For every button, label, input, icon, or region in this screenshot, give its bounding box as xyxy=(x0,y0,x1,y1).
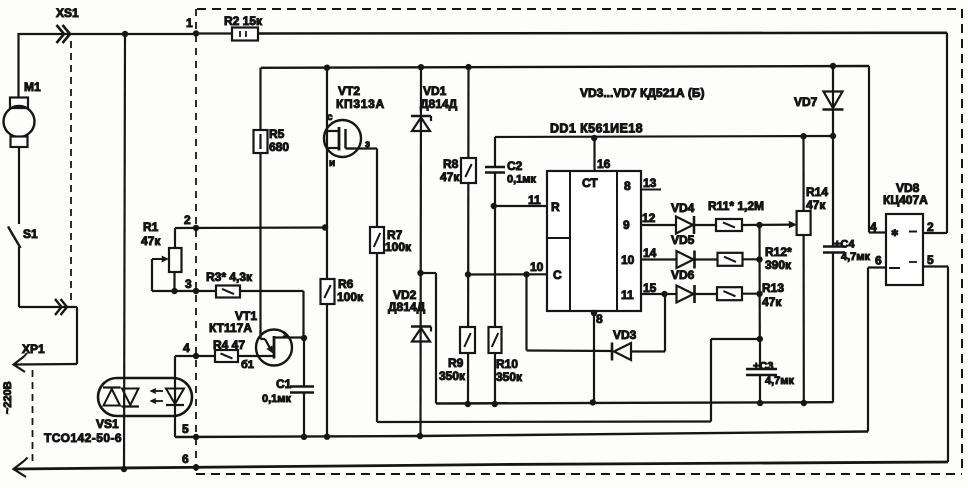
svg-text:Д814Д: Д814Д xyxy=(388,300,426,314)
svg-text:Д814Д: Д814Д xyxy=(420,97,458,111)
svg-text:13: 13 xyxy=(643,176,657,190)
svg-text:6: 6 xyxy=(182,452,189,466)
svg-text:и: и xyxy=(329,158,335,169)
svg-text:VT2: VT2 xyxy=(338,84,360,98)
svg-text:DD1 К561ИЕ18: DD1 К561ИЕ18 xyxy=(550,122,643,136)
svg-text:R5: R5 xyxy=(269,127,285,141)
svg-text:47к: 47к xyxy=(806,198,826,212)
svg-text:11: 11 xyxy=(621,288,634,302)
svg-text:47к: 47к xyxy=(762,295,782,309)
svg-text:10: 10 xyxy=(621,253,635,267)
svg-text:XS1: XS1 xyxy=(56,6,79,20)
svg-text:11: 11 xyxy=(528,193,541,207)
svg-text:VD3...VD7 КД521А (Б): VD3...VD7 КД521А (Б) xyxy=(580,86,705,100)
svg-text:2: 2 xyxy=(927,220,934,234)
svg-text:100к: 100к xyxy=(337,290,364,304)
svg-text:100к: 100к xyxy=(385,240,412,254)
svg-text:+С3: +С3 xyxy=(753,361,774,373)
svg-text:з: з xyxy=(365,139,370,150)
svg-text:✱: ✱ xyxy=(891,228,899,238)
svg-text:R2 15к: R2 15к xyxy=(224,14,263,28)
svg-text:R9: R9 xyxy=(448,356,464,370)
svg-text:4: 4 xyxy=(183,341,190,355)
svg-text:КТ117А: КТ117А xyxy=(209,321,252,335)
svg-text:VD4: VD4 xyxy=(671,201,695,215)
svg-text:8: 8 xyxy=(624,179,631,193)
svg-text:5: 5 xyxy=(182,422,189,436)
svg-text:R4 47: R4 47 xyxy=(213,338,245,352)
svg-text:М1: М1 xyxy=(24,80,41,94)
svg-text:9: 9 xyxy=(623,218,630,232)
svg-text:R14: R14 xyxy=(806,185,828,199)
svg-text:390к: 390к xyxy=(765,258,792,272)
svg-text:3: 3 xyxy=(185,277,192,291)
svg-text:47к: 47к xyxy=(141,234,161,248)
svg-text:8: 8 xyxy=(596,312,603,326)
svg-text:R6: R6 xyxy=(338,277,354,291)
svg-text:6: 6 xyxy=(875,254,882,268)
svg-text:4,7мк: 4,7мк xyxy=(841,251,870,263)
svg-text:14: 14 xyxy=(643,246,657,260)
svg-text:1: 1 xyxy=(186,16,193,30)
svg-text:R11* 1,2М: R11* 1,2М xyxy=(708,199,764,213)
svg-text:350к: 350к xyxy=(439,369,466,383)
svg-text:ТСО142-50-6: ТСО142-50-6 xyxy=(44,431,122,445)
svg-text:12: 12 xyxy=(642,211,656,225)
svg-text:R10: R10 xyxy=(496,357,518,371)
svg-text:15: 15 xyxy=(643,281,657,295)
svg-text:47к: 47к xyxy=(440,170,460,184)
svg-text:С1: С1 xyxy=(276,377,292,391)
svg-text:680: 680 xyxy=(269,140,289,154)
svg-text:16: 16 xyxy=(597,157,611,171)
svg-text:2: 2 xyxy=(184,213,191,227)
svg-text:10: 10 xyxy=(530,260,544,274)
svg-text:VD7: VD7 xyxy=(794,95,818,109)
svg-text:~220В: ~220В xyxy=(2,381,14,414)
svg-text:КЦ407А: КЦ407А xyxy=(883,193,928,207)
svg-text:0,1мк: 0,1мк xyxy=(507,174,536,186)
svg-text:R: R xyxy=(551,200,560,214)
svg-text:VD1: VD1 xyxy=(423,84,447,98)
svg-text:C: C xyxy=(553,268,562,282)
svg-text:R1: R1 xyxy=(143,220,159,234)
svg-text:VD3: VD3 xyxy=(613,328,637,342)
svg-text:С2: С2 xyxy=(507,159,523,173)
svg-text:с: с xyxy=(327,112,333,123)
svg-text:R12*: R12* xyxy=(765,245,792,259)
svg-text:VD6: VD6 xyxy=(671,268,695,282)
svg-text:R13: R13 xyxy=(762,281,784,295)
svg-text:КП313А: КП313А xyxy=(336,97,385,111)
svg-text:VS1: VS1 xyxy=(96,417,119,431)
svg-text:XP1: XP1 xyxy=(22,342,45,356)
svg-text:4: 4 xyxy=(870,220,877,234)
svg-text:+С4: +С4 xyxy=(834,239,855,251)
svg-text:з: з xyxy=(283,330,287,339)
svg-text:R3* 4,3к: R3* 4,3к xyxy=(206,270,253,284)
svg-text:S1: S1 xyxy=(23,227,38,241)
svg-text:350к: 350к xyxy=(496,370,523,384)
svg-text:R8: R8 xyxy=(443,157,459,171)
svg-text:5: 5 xyxy=(927,253,934,267)
svg-text:б1: б1 xyxy=(241,359,254,371)
svg-text:4,7мк: 4,7мк xyxy=(765,375,794,387)
svg-text:СТ: СТ xyxy=(582,176,598,190)
svg-text:0,1мк: 0,1мк xyxy=(262,393,291,405)
svg-text:VD5: VD5 xyxy=(671,233,695,247)
